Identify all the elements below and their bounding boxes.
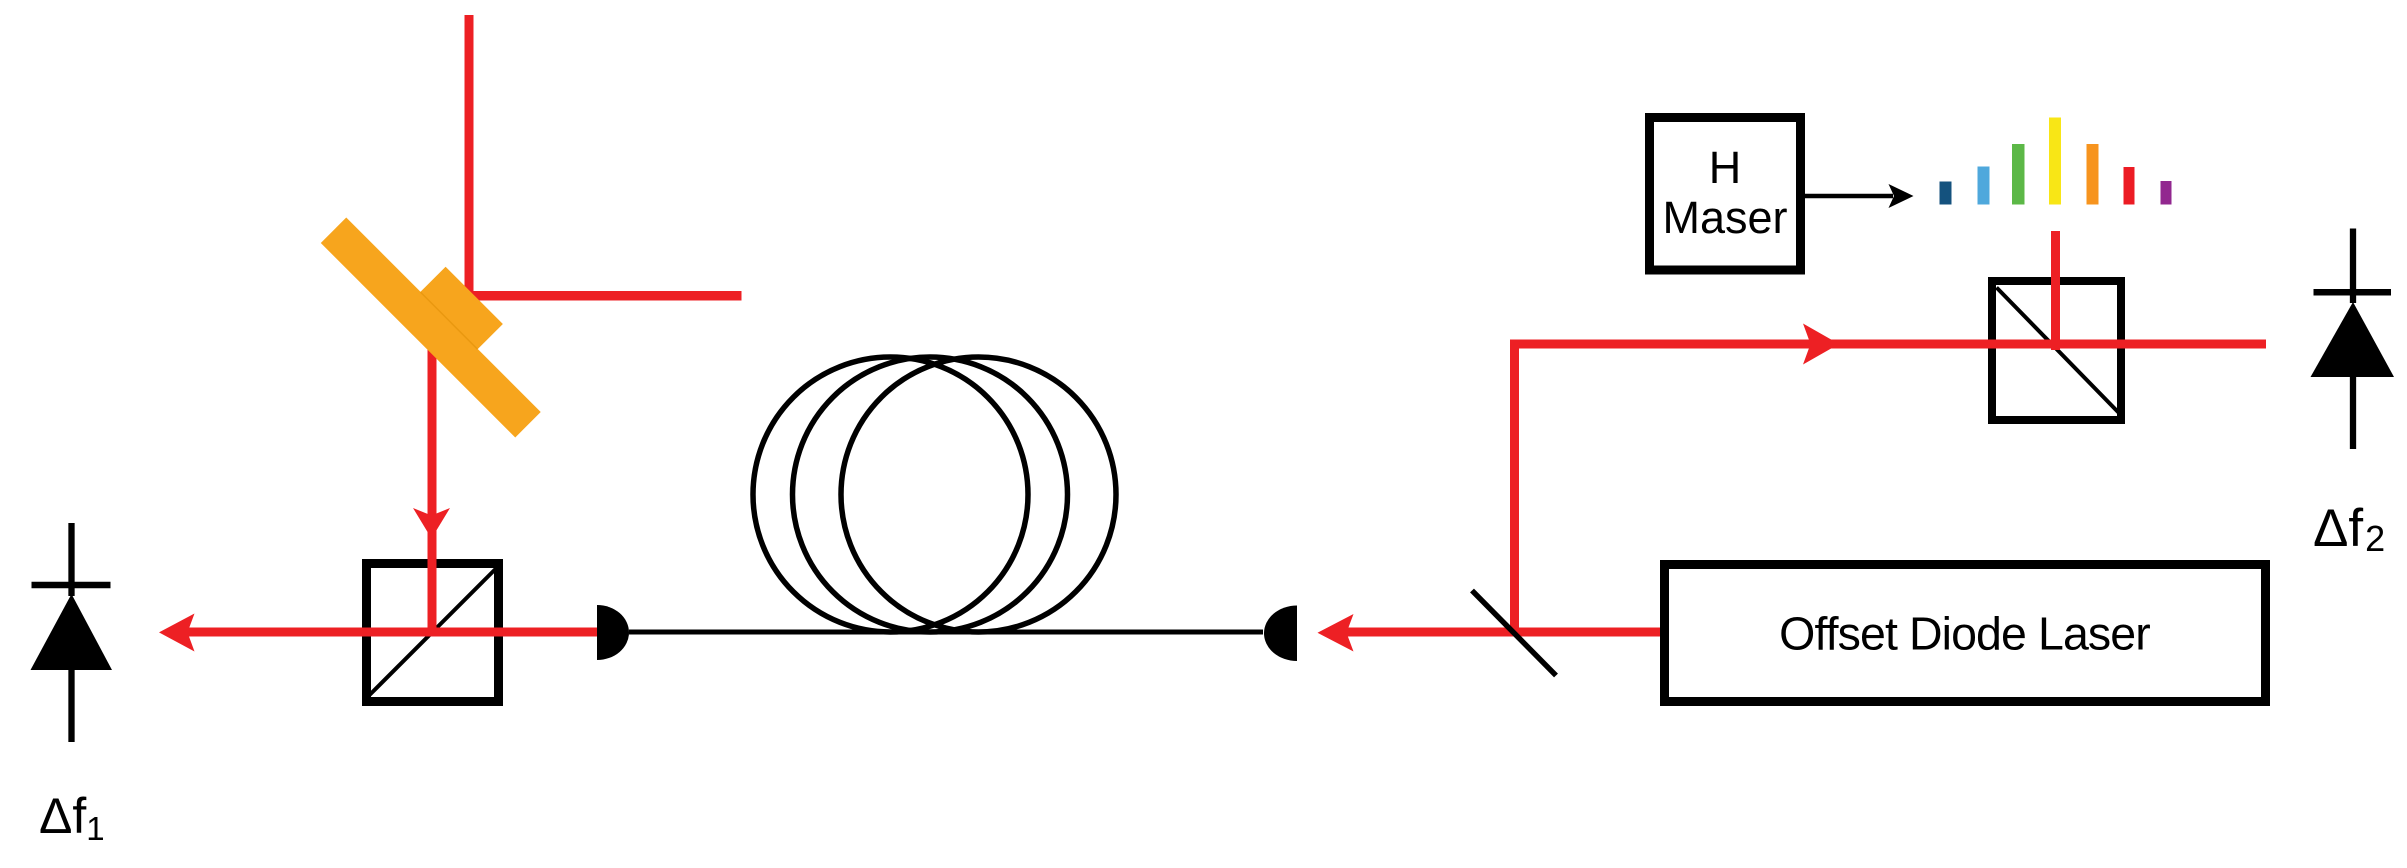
svg-text:Δf2: Δf2 <box>2313 499 2385 559</box>
comb line orange <box>2087 144 2099 205</box>
wire: red beam vertical from sampler up <box>1510 340 1519 637</box>
wire: red beam from laser to FC2 <box>1345 628 1669 637</box>
wire: red beam horizontal to BS2 <box>1510 340 2266 349</box>
svg-text:H: H <box>1709 142 1742 193</box>
wire: red beam horizontal top-left <box>458 291 742 301</box>
comb line green <box>2012 144 2025 205</box>
BS1 diagonal <box>369 569 496 696</box>
Offset Diode Laser box <box>1665 565 2266 702</box>
photodiode PD1 triangle <box>31 594 113 670</box>
comb line blue <box>1978 167 1990 205</box>
wire: fiber line <box>629 630 1263 635</box>
arrowhead: red beam down into BS1 <box>413 508 450 539</box>
arrowhead: red beam pointing right to BS2 <box>1803 324 1839 365</box>
BS2 diagonal <box>1997 288 2120 414</box>
wire: red beam vertical input top-left <box>465 15 474 301</box>
fiber coupler FC1 (left) <box>597 605 629 660</box>
photodiode PD2 cathode bar <box>2314 289 2392 296</box>
photodiode PD1 lead bottom <box>68 669 74 742</box>
wire: red beam reflected down from grating to beam splitter BS1 <box>428 338 437 636</box>
fiber loop coil <box>753 357 1116 632</box>
svg-text:Δf1: Δf1 <box>39 788 105 847</box>
wire: arrow from H Maser to comb <box>1804 194 1893 199</box>
arrowhead: red beam pointing left into FC2 <box>1318 614 1354 652</box>
wire: red beam from BS1 to left photodiode <box>186 628 601 637</box>
svg-text:Maser: Maser <box>1662 192 1787 243</box>
svg-text:Offset Diode Laser: Offset Diode Laser <box>1779 608 2150 660</box>
comb line navy <box>1940 182 1952 205</box>
photodiode PD2 lead top <box>2350 229 2356 304</box>
comb line red <box>2124 167 2135 205</box>
comb line purple <box>2161 181 2172 205</box>
arrowhead: red beam pointing left to photodiode PD1 <box>159 614 195 652</box>
wire: red beam vertical at BS2 to comb <box>2051 231 2060 350</box>
beam sampler plate (diagonal) <box>1472 591 1556 676</box>
fiber coupler FC2 (right) <box>1264 606 1297 662</box>
H Maser box <box>1650 118 1801 271</box>
photodiode PD2 triangle <box>2311 302 2395 377</box>
photodiode PD1 lead top <box>68 523 74 596</box>
arrowhead: maser arrow <box>1889 184 1914 208</box>
photodiode PD2 lead bottom <box>2350 376 2356 449</box>
beam splitter cube BS1 <box>367 564 499 702</box>
photodiode PD1 cathode bar <box>32 582 111 589</box>
comb line yellow <box>2049 118 2061 205</box>
mirror/grating M1 (orange) <box>321 192 566 437</box>
beam splitter cube BS2 <box>1992 281 2121 420</box>
